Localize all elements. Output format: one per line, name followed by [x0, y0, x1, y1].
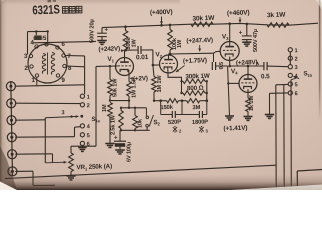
socket pin 3	[24, 53, 33, 60]
wire 1k bottom	[247, 112, 249, 117]
wire right terminals strap	[289, 52, 291, 65]
svg-text:500V 47µ: 500V 47µ	[253, 29, 259, 52]
wire bias bus	[120, 107, 147, 109]
svg-text:6: 6	[87, 142, 90, 148]
jack J1	[6, 82, 15, 91]
label 30k 1W	[192, 15, 215, 23]
label 300k 1W	[126, 37, 137, 50]
svg-text:150k: 150k	[160, 105, 173, 111]
label 0.5 left	[219, 61, 225, 70]
resistor 50k 1W grid leak	[108, 80, 113, 96]
label 1W 1.5k	[132, 77, 138, 98]
switch S1b wiper	[293, 76, 299, 79]
svg-text:+: +	[239, 30, 243, 37]
label 2.5k 1W	[111, 114, 117, 135]
svg-text:1W: 1W	[177, 39, 183, 48]
svg-text:6V 100µ: 6V 100µ	[127, 142, 133, 162]
figure corner line	[297, 170, 322, 191]
socket pin 6	[56, 41, 66, 49]
socket center line	[47, 53, 49, 75]
wire jack4 to t4	[15, 127, 80, 138]
svg-text:2.5k 1W: 2.5k 1W	[111, 114, 117, 135]
wire 50k bottom	[109, 96, 111, 101]
wire socket rail	[33, 41, 96, 42]
jack J3	[7, 116, 16, 125]
wire feedback bottom bus	[153, 99, 208, 102]
wire VR1 top	[71, 146, 96, 153]
label 520P	[168, 120, 181, 126]
terminal right 5	[288, 82, 297, 88]
terminal right 1	[288, 48, 297, 54]
svg-text:(+248V): (+248V)	[236, 59, 258, 67]
socket pin 5	[43, 35, 48, 46]
wire jack6 corner	[15, 171, 55, 185]
svg-text:30k 1W: 30k 1W	[192, 15, 215, 23]
resistor 800 ohm	[183, 91, 205, 95]
resistor 300k 1W feedback	[183, 79, 205, 83]
mark kome-2	[173, 126, 182, 133]
svg-text:3k 1W: 3k 1W	[267, 12, 286, 20]
label 3	[61, 110, 64, 116]
wire output bus	[228, 65, 263, 68]
socket pin 8	[63, 64, 72, 72]
label 50k 1W	[113, 78, 119, 97]
mark kome-3	[199, 126, 208, 133]
wire jack bus	[11, 81, 13, 177]
wire VR1 feed riser	[95, 66, 97, 146]
resistor 1.5k cathode	[127, 82, 132, 97]
wire V4 grid drop	[228, 66, 230, 116]
wire S1b down right	[291, 78, 297, 190]
svg-text:(+247.4V): (+247.4V)	[186, 37, 213, 45]
ground for VR1	[67, 176, 76, 180]
capacitor 0.01	[138, 46, 141, 54]
wire plate bus to V3	[170, 52, 214, 55]
junction on rail at 100k	[169, 24, 172, 27]
wire bias node	[109, 99, 130, 101]
svg-text:10k: 10k	[138, 118, 144, 128]
label S1a	[91, 116, 100, 124]
label V3	[222, 33, 229, 41]
figure bottom border	[5, 165, 276, 178]
node +460V arrow	[239, 17, 242, 22]
svg-text:1800P: 1800P	[192, 119, 208, 126]
node +1.75V label	[176, 57, 207, 72]
terminal left 4	[80, 124, 91, 130]
terminal right 3	[288, 65, 297, 71]
svg-text:0.01: 0.01	[136, 54, 149, 61]
capacitor 20uF lead	[101, 28, 103, 34]
jack J5	[8, 150, 17, 159]
svg-text:(+1.41V): (+1.41V)	[223, 125, 247, 133]
wire V3 cathode to output	[229, 57, 231, 66]
svg-text:(+1.75V): (+1.75V)	[183, 57, 207, 65]
paper background	[0, 0, 322, 190]
resistor 2.5k 1W	[119, 108, 124, 131]
svg-text:3: 3	[294, 65, 297, 71]
wire V4 cathode	[247, 89, 249, 98]
capacitor 6V 100uF polarity	[114, 135, 118, 142]
socket heater coil left	[42, 54, 45, 74]
resistor 30k 1W	[191, 22, 213, 26]
wire 0.01 to V2 grid	[141, 50, 160, 65]
svg-text:6: 6	[294, 91, 297, 97]
resistor 1M 1W grid	[152, 65, 157, 101]
wire t6l ground lead	[81, 146, 83, 148]
wire V2 cathode	[168, 67, 182, 93]
resistor 3M	[187, 99, 200, 103]
node +400V label	[150, 9, 173, 17]
wire bias bottom bus	[120, 129, 150, 131]
svg-text:520P: 520P	[168, 120, 181, 126]
cut-off text fragment	[48, 0, 57, 2]
wire V1 plate to 300k	[124, 49, 127, 58]
socket pin 1	[31, 74, 38, 84]
wire pin8 to bus	[66, 66, 84, 85]
svg-text:50k 1W: 50k 1W	[113, 78, 119, 97]
ground for terminal 6	[265, 115, 275, 119]
svg-text:1: 1	[294, 48, 297, 54]
wire jack2 to t2	[15, 102, 80, 104]
socket pin 4	[30, 39, 38, 48]
wire wiper drop	[44, 118, 46, 163]
label 100k 1W	[172, 37, 183, 50]
label 3M	[192, 105, 200, 111]
label 0.5 output	[261, 73, 270, 80]
ground for V4 grid leak	[225, 116, 234, 120]
terminal right 2	[288, 56, 297, 62]
label 300k 1W feedback	[185, 73, 210, 81]
label V4	[231, 68, 238, 76]
wire jack5 down	[15, 154, 52, 163]
wire V3 grid riser	[214, 51, 221, 53]
white scan slivers	[0, 182, 17, 191]
label 500V 47uF	[253, 29, 259, 52]
resistor 100k 1W plate load	[168, 25, 173, 54]
terminal right 4	[288, 73, 298, 79]
junction V2 grid resistor tap	[152, 64, 155, 67]
capacitor 0.5 output	[264, 62, 267, 70]
capacitor 47uF polarity	[239, 30, 243, 37]
svg-text:1M: 1M	[102, 104, 108, 112]
ground for 20uF	[97, 41, 107, 45]
socket heater coil right	[51, 53, 54, 75]
node +2V label	[130, 75, 148, 83]
svg-text:(+460V): (+460V)	[227, 9, 250, 17]
jack J2	[7, 99, 16, 108]
wire feedback left	[180, 80, 183, 94]
ground for 1k	[244, 117, 253, 121]
svg-text:(+400V): (+400V)	[150, 9, 173, 17]
label 1800P	[192, 119, 208, 126]
label V1	[107, 56, 114, 64]
terminal left 6	[80, 141, 90, 147]
capacitor 6V 100uF lead	[119, 130, 121, 141]
svg-text:5: 5	[87, 133, 90, 139]
wire 1M bottom	[109, 117, 111, 144]
node +400V arrow	[160, 17, 163, 27]
op-amp V2 tube	[160, 55, 178, 73]
capacitor 20uF polarity +	[105, 28, 109, 34]
resistor 1M	[108, 103, 113, 117]
node +460V label	[227, 9, 250, 17]
resistor 1k 1W cathode	[246, 98, 251, 112]
wire pin1 down	[36, 77, 38, 86]
wire V1 plate to 0.01	[125, 49, 138, 51]
svg-text:3M: 3M	[192, 105, 200, 111]
terminal left 2	[80, 103, 90, 109]
title 6321S	[32, 2, 60, 17]
svg-text:2: 2	[294, 56, 297, 62]
wire 50k top	[109, 66, 111, 79]
svg-text:1W 1.5k: 1W 1.5k	[132, 77, 138, 98]
title kanji soutouhin	[63, 6, 82, 13]
svg-text:5: 5	[294, 82, 297, 88]
node +248V label	[236, 59, 259, 67]
label 1k 1W	[249, 95, 255, 111]
node +247.4V label	[186, 37, 213, 52]
terminal left 1	[80, 94, 90, 100]
ground for terminal 6 left	[78, 148, 87, 152]
jack J6	[8, 167, 17, 176]
wire V3 plate to rail	[229, 24, 231, 42]
label 800 ohm	[187, 85, 204, 93]
wire terminal6 to ground	[270, 93, 289, 115]
wire B+ rail	[102, 23, 318, 27]
svg-text:0.5: 0.5	[219, 61, 225, 70]
wire socket top to pin5	[46, 43, 48, 45]
ground for 100uF	[115, 150, 125, 154]
capacitor 20uF plates	[97, 33, 107, 36]
junction grid-50k	[109, 65, 111, 67]
svg-text:1M 1W: 1M 1W	[157, 75, 163, 93]
socket pin 2	[24, 65, 33, 72]
label 150k	[160, 105, 173, 111]
capacitor 47uF plates	[242, 36, 252, 40]
label S1b	[303, 70, 312, 78]
heater jumper block	[33, 35, 42, 40]
svg-text:0.5: 0.5	[261, 73, 270, 80]
label 500V 20uF	[90, 19, 96, 43]
op-amp V3 tube	[220, 42, 239, 61]
svg-text:+: +	[114, 135, 118, 142]
op-amp V1 tube	[116, 58, 134, 76]
wire cap to terminal 3	[267, 65, 288, 68]
junction on rail at 300k	[124, 25, 127, 28]
wire pin7 to bus	[65, 56, 84, 67]
wire feedback right riser	[205, 80, 208, 101]
resistor 10k	[133, 108, 138, 131]
svg-text:1k 1W: 1k 1W	[249, 95, 255, 111]
resistor 300k lead top	[125, 27, 127, 31]
node +1.41V label	[223, 125, 247, 133]
capacitor 520P	[161, 101, 182, 118]
label V2	[155, 51, 162, 59]
capacitor 20uF lower lead	[101, 37, 103, 41]
label VR1 250k	[76, 163, 112, 172]
wire V4 grid	[227, 82, 239, 84]
label 1M	[102, 104, 108, 112]
capacitor 0.5 to V4 grid	[212, 53, 227, 70]
resistor 3k 1W	[267, 23, 289, 28]
capacitor 1800P	[182, 101, 207, 118]
wire V1 cathode	[128, 70, 130, 82]
svg-text:300k 1W: 300k 1W	[185, 73, 210, 81]
wire terminal5 down	[276, 84, 288, 190]
wire V1 grid	[96, 65, 118, 67]
svg-text:2: 2	[87, 103, 90, 109]
terminal right 6	[288, 91, 297, 97]
node +242V label	[98, 45, 124, 53]
switch VR1 wiper arrow	[45, 161, 66, 164]
op-amp V4 tube	[239, 75, 257, 93]
capacitor 6V 100uF	[114, 141, 126, 147]
terminal left 5	[80, 133, 90, 139]
wire 100uF bottom	[119, 147, 121, 150]
svg-text:1W: 1W	[131, 39, 137, 48]
label 6V 100uF	[127, 142, 133, 162]
wire 1.5k bottom	[128, 96, 130, 101]
capacitor 47uF lower lead	[246, 40, 248, 43]
edge shadows	[0, 0, 7, 190]
switch S2	[146, 108, 154, 131]
label 0.01	[136, 54, 149, 61]
potentiometer VR1	[69, 153, 74, 176]
svg-text:(+242V): (+242V)	[98, 45, 120, 53]
label 1M 1W	[157, 75, 163, 93]
resistor 300k 1W plate load	[123, 31, 128, 50]
junction on rail at V3 plate	[228, 22, 231, 25]
capacitor 47uF lead	[246, 24, 248, 36]
socket pin 9	[56, 74, 65, 84]
wire V4 plate to output bus	[247, 66, 249, 75]
label S2	[153, 119, 160, 127]
wire jack3 to wiper drop	[15, 119, 45, 121]
label 10k	[138, 118, 144, 128]
resistor 300k lead bottom	[125, 49, 127, 52]
wire V2 plate	[169, 53, 172, 56]
svg-text:3: 3	[61, 110, 64, 116]
jack J4	[7, 133, 16, 142]
wire heater bracket	[28, 30, 49, 54]
svg-text:1: 1	[87, 94, 90, 100]
socket pin 7	[62, 53, 72, 60]
tube socket circle	[28, 44, 67, 83]
svg-text:800 Ω: 800 Ω	[187, 85, 204, 93]
ground for 47uF	[242, 42, 251, 46]
ground for 1M	[105, 144, 115, 148]
label 3k 1W	[267, 12, 286, 20]
wire bias drop	[128, 101, 130, 108]
wire-3 to wiper	[45, 115, 83, 118]
junction on rail at 47uF	[246, 23, 249, 26]
svg-text:500V 20µ: 500V 20µ	[90, 19, 96, 43]
resistor 150k	[167, 99, 179, 103]
wire jack1 to t1	[15, 85, 84, 94]
